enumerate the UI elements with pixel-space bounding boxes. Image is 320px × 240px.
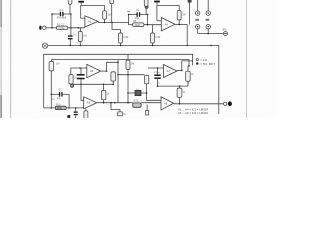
- terminal bottom left: [196, 25, 200, 29]
- resistor R5 to ground: [120, 30, 122, 34]
- capacitor C3 electrolytic: [70, 28, 72, 36]
- page gutter streak: [0, 0, 2, 118]
- wire inv input: [81, 17, 85, 19]
- node cap right s2: [147, 14, 149, 16]
- wire cap top right s2: [140, 14, 147, 16]
- wire A2 output: [98, 21, 129, 23]
- op-amp A4: [161, 18, 175, 31]
- output jack plug lens: [228, 101, 232, 106]
- page column rule right: [246, 0, 248, 118]
- node at bus: [186, 45, 188, 47]
- ground terminal: [42, 43, 47, 48]
- resistor R10 bottom-left horizontal: [44, 107, 56, 109]
- wire R14 chain down: [127, 75, 129, 103]
- wire R1 to opamp: [68, 27, 85, 29]
- label stub: [127, 11, 130, 12]
- capacitor MKT block R: [128, 92, 135, 94]
- wire e-cap to ground bus: [69, 39, 71, 45]
- wire branch down: [112, 22, 121, 29]
- wires C6: [80, 68, 82, 74]
- capacitor C6 feedback plates: [77, 74, 85, 79]
- wire inv input s2: [157, 20, 161, 22]
- wire R10 to A6: [66, 107, 84, 109]
- wire terminal up left: [197, 0, 199, 11]
- terminal top left: [196, 11, 200, 15]
- wire R15 down to A8 input: [147, 84, 161, 101]
- bottom module inner rail: [51, 60, 189, 66]
- wire resistor down to cap node: [69, 4, 71, 14]
- wire A4 output: [175, 23, 187, 25]
- node: [68, 107, 70, 109]
- op-amp A5: [87, 64, 101, 77]
- wire A5 output: [101, 70, 107, 72]
- output jack socket circle: [224, 102, 227, 105]
- resistor R8 feedback s2: [178, 5, 180, 10]
- wire cap branch top left: [52, 13, 60, 15]
- node A2 out fb: [104, 22, 106, 24]
- wire cap branch left vertical: [51, 14, 53, 28]
- wire feedback line A5/A6: [71, 83, 113, 85]
- component bottom mid2: [146, 110, 149, 115]
- node A5 inv: [79, 67, 81, 69]
- node before A6: [75, 107, 77, 109]
- supply bar stage1: [78, 1, 84, 3]
- node R6 right: [147, 24, 149, 26]
- tolerance mark circle bottom-left: [71, 84, 74, 87]
- resistor top cut R2: [68, 0, 72, 4]
- resistor R17 feedback A8: [179, 86, 181, 88]
- wire R13 to A8: [141, 102, 161, 104]
- component below mid: [118, 112, 123, 116]
- op-amp A2: [85, 16, 98, 27]
- component cut top right: [188, 0, 191, 2]
- node noninv branch: [77, 27, 79, 29]
- label between terminals right: [206, 19, 210, 21]
- terminal top right: [206, 11, 210, 15]
- resistor below A6 cut at bottom: [84, 111, 88, 119]
- supply bar stage2: [154, 1, 160, 3]
- supply terminal screw: [224, 32, 228, 36]
- wire A8 output: [174, 103, 224, 105]
- wire terminal down right: [207, 29, 209, 34]
- wires C7: [157, 68, 159, 75]
- resistor R6: [133, 23, 144, 27]
- capacitor C7 feedback plates blockR: [154, 75, 161, 79]
- resistor R9 bottom-left: [49, 62, 54, 71]
- wire input to R1: [46, 27, 57, 29]
- wire R6 left: [129, 24, 133, 26]
- node fb: [80, 84, 82, 86]
- op-amp A8: [161, 97, 174, 110]
- wire to supply terminal: [198, 33, 224, 35]
- input jack socket circle: [43, 26, 46, 29]
- wire A4 out down to bus: [186, 24, 188, 45]
- legend 1% symbol: [196, 59, 198, 61]
- wire block R input line: [118, 74, 145, 76]
- op-amp A6: [84, 97, 97, 109]
- resistor R14 block R from rail: [127, 54, 129, 60]
- wire cap top left s2: [129, 14, 137, 16]
- resistor R15 block R vertical: [144, 75, 148, 84]
- wire A5 inv input: [71, 68, 87, 75]
- resistor R7 to ground s2: [152, 25, 154, 33]
- wire terminal down left: [197, 29, 199, 34]
- input jack plug (filled lens): [39, 26, 41, 30]
- bus right drop: [218, 45, 220, 114]
- wire feedback rail stage2: [157, 5, 179, 20]
- resistor R11 feedback: [69, 75, 73, 84]
- terminal bottom right: [206, 25, 210, 29]
- tolerance mark circle s2: [145, 6, 148, 9]
- wire A7 out up corner: [182, 61, 193, 71]
- wire resistor down s2: [145, 6, 147, 14]
- op-amp A7: [164, 65, 178, 78]
- resistor R13 horizontal mid-bottom: [133, 103, 141, 107]
- wire cap branch right vertical: [70, 14, 72, 28]
- node on wire: [207, 33, 209, 35]
- label between terminals left: [195, 19, 199, 21]
- wire terminal up right: [207, 0, 209, 11]
- wire cap branch top right: [64, 13, 71, 15]
- resistor R12 feedback A6: [102, 91, 106, 100]
- wire A5 out up corner: [107, 62, 119, 71]
- wire cap right down: [68, 94, 70, 108]
- resistor R18 right of A5: [111, 72, 116, 81]
- page column rule left: [10, 0, 12, 118]
- node A4 out: [178, 24, 180, 26]
- ground bus: [48, 44, 219, 46]
- bottom module outer rail: [44, 54, 193, 108]
- wire A7 output: [177, 69, 182, 71]
- bus nodes: [70, 45, 212, 47]
- resistor R1: [57, 26, 68, 30]
- wire cap right vertical s2: [147, 15, 149, 25]
- wire jog s2: [128, 22, 130, 24]
- resistor top cut s2: [144, 0, 148, 6]
- wire R9 down: [50, 71, 52, 108]
- wire R6 to A4: [144, 24, 161, 26]
- wire cap branch left vertical s2: [128, 15, 130, 25]
- capacitor C1 plates: [60, 12, 64, 17]
- wire feedback line A7/A8: [158, 85, 189, 87]
- wire R16 to feedback line: [187, 81, 189, 86]
- wire A7 inv input: [148, 67, 164, 69]
- mark below node cut at bottom: [67, 115, 70, 118]
- node cap left bottom: [51, 94, 53, 96]
- wire from cut resistor down: [111, 4, 113, 23]
- wire vertical block R feed: [117, 60, 119, 103]
- wire A6 output: [97, 102, 133, 104]
- wire down from cut component: [189, 2, 191, 24]
- wire branch down mid: [111, 103, 120, 110]
- wire supply bar down s2: [156, 2, 158, 5]
- wire feedback rail stage1: [81, 5, 105, 18]
- node A2 out branch: [111, 22, 113, 24]
- node cap right: [70, 13, 72, 15]
- legend 5% symbol: [196, 62, 198, 64]
- node after R1: [70, 27, 72, 29]
- node cap left s2: [128, 14, 130, 16]
- capacitor C5 plates bottom-left: [51, 93, 59, 95]
- resistor R16 from rails: [186, 71, 191, 81]
- capacitor to ground below A6 input: [75, 108, 77, 112]
- wire A6 inv drop: [81, 84, 84, 100]
- capacitor C4 plates: [137, 12, 141, 17]
- resistor cut top mid: [110, 0, 114, 4]
- resistor R3: [79, 28, 81, 32]
- node bottom left: [51, 107, 53, 109]
- wire supply bar down: [80, 3, 82, 6]
- node cap left: [51, 13, 53, 15]
- resistor R4 feedback: [104, 5, 106, 10]
- node input junction: [51, 27, 53, 29]
